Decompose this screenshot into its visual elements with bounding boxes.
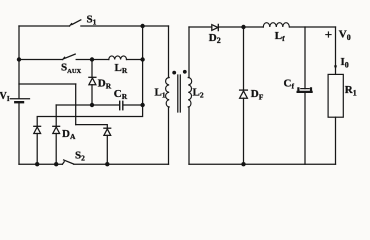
transformer primary lead upper (168, 26, 170, 78)
transformer core line 1 (177, 75, 179, 112)
diode DR triangle (89, 78, 96, 85)
svg-text:DR: DR (98, 78, 112, 91)
wire: D2 to Lf (218, 26, 263, 28)
wire: right rail upper (output) (335, 27, 337, 74)
wire: Cf column lower (304, 93, 306, 164)
svg-text:R1: R1 (345, 84, 357, 97)
transformer core line 2 (179, 75, 181, 112)
wire: diode2 column upper (55, 105, 57, 126)
junction dot DA2 bottom (54, 162, 58, 166)
diode DA2 triangle (53, 127, 60, 134)
transformer primary phase dot (172, 71, 176, 75)
svg-text:CR: CR (114, 88, 128, 101)
wire: Saux row left of switch (19, 59, 63, 61)
wire: DF column lower (243, 98, 245, 164)
wire: branch vertical x=75.7 (75, 84, 77, 125)
diode DR cathode bar (89, 76, 96, 78)
switch S1 contact tick (70, 24, 72, 26)
junction dot top rail / mid vertical (140, 24, 144, 28)
diode DA1 triangle (34, 127, 41, 134)
transformer secondary phase dot (183, 70, 187, 74)
junction dot left rail / Saux row (17, 57, 21, 61)
inductor LR coil (109, 56, 127, 60)
junction dot CR row / mid vertical (140, 103, 144, 107)
svg-text:I0: I0 (341, 56, 349, 69)
junction dot DR / CR row (90, 103, 94, 107)
resistor R1 body (328, 74, 343, 117)
capacitor Cf bottom cup (298, 88, 312, 92)
source V_I battery short plate (15, 101, 23, 103)
wire: DA3 lower lead (106, 135, 108, 164)
wire: bottom rail right of S2 (74, 163, 169, 165)
svg-text:SAUX: SAUX (61, 62, 82, 76)
svg-text:S1: S1 (87, 13, 97, 26)
switch S2 contact tick (62, 162, 64, 164)
junction dot DA3 bottom (105, 162, 109, 166)
wire: bottom rail left of S2 (19, 163, 62, 165)
junction dot DF bottom (241, 162, 245, 166)
svg-text:LR: LR (115, 62, 128, 75)
wire: DA2 lower lead (55, 134, 57, 165)
wire: top rail left of S1 (19, 25, 70, 27)
svg-text:S2: S2 (75, 150, 85, 163)
junction dot LR row / mid vertical (140, 57, 144, 61)
diode D2 cathode bar (217, 24, 219, 30)
svg-text:Lf: Lf (275, 30, 285, 43)
svg-text:VI: VI (0, 91, 10, 103)
transformer secondary lead lower (188, 107, 190, 164)
svg-text:DF: DF (251, 88, 264, 101)
wire: right bottom rail (189, 163, 336, 165)
wire: from CR-right node down then left to DA1 (37, 105, 142, 126)
switch S2 blade (64, 160, 74, 164)
wire: DA1 lower lead (36, 134, 38, 165)
wire: mid vertical x=142.6 (top to CR row) (142, 26, 144, 105)
wire: top rail right of S1 (81, 25, 169, 27)
svg-text:L2: L2 (193, 87, 204, 100)
svg-text:L1: L1 (155, 87, 166, 100)
svg-text:D2: D2 (209, 32, 221, 45)
capacitor CR left plate (119, 101, 121, 109)
wire: right rail lower (335, 117, 337, 164)
svg-text:Cf: Cf (284, 78, 295, 91)
transformer secondary winding L2 (188, 77, 192, 107)
wire: left rail upper (Vi+ to top) (18, 26, 20, 98)
switch Saux blade (64, 54, 75, 59)
wire: DR branch upper (91, 60, 93, 78)
wire: Lf to output corner (290, 26, 336, 28)
wire: DF column upper (243, 27, 245, 90)
svg-text:+: + (325, 27, 332, 42)
diode DF cathode bar (240, 89, 248, 91)
diode DA1 cathode bar (34, 125, 41, 127)
transformer primary winding L1 (166, 77, 170, 107)
svg-text:V0: V0 (339, 29, 351, 42)
diode D2 triangle (212, 25, 218, 31)
inductor Lf coil (263, 23, 289, 27)
diode DF triangle (240, 91, 248, 98)
diode DA3 triangle (104, 129, 111, 136)
switch S1 blade (72, 20, 81, 25)
junction dot D2 / DF (241, 25, 245, 29)
wire: Cf column upper (304, 27, 306, 89)
wire: DR branch lower (91, 85, 93, 105)
source V_I battery long plate (10, 98, 29, 100)
wire: CR row right (123, 104, 142, 106)
wire: LR to mid vertical (127, 59, 143, 61)
wire: left rail lower (battery to bottom) (18, 103, 20, 165)
capacitor Cf top plate (301, 88, 309, 90)
wire: secondary top rail to D2 (189, 26, 212, 28)
junction dot Saux row / DR (90, 57, 94, 61)
transformer primary lead lower (168, 107, 170, 164)
transformer secondary lead upper (188, 27, 190, 78)
svg-text:DA: DA (62, 128, 76, 141)
junction dot DA1 bottom (35, 162, 39, 166)
capacitor CR right plate (122, 101, 124, 109)
wire: Saux row right of switch to LR (76, 59, 109, 61)
wire: Vi+ branch row y=84 (19, 83, 76, 85)
switch Saux contact tick (63, 57, 65, 59)
wire: branch row y=124.6 to DA3 (76, 125, 108, 128)
Io arrow head (334, 66, 337, 70)
wire: CR row left (diode2 top to node) (56, 104, 119, 106)
diode DA3 cathode bar (104, 127, 111, 129)
diode DA2 cathode bar (53, 125, 60, 127)
